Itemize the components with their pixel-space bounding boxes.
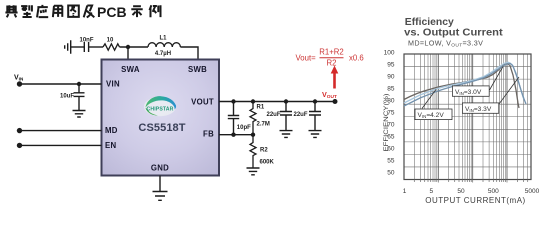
svg-text:VIN=3.3V: VIN=3.3V — [465, 106, 492, 113]
wire C2 branch — [78, 84, 80, 93]
svg-text:50: 50 — [457, 188, 465, 195]
glyph 典 — [5, 5, 17, 17]
svg-text:FB: FB — [203, 130, 214, 139]
svg-text:vs. Output Current: vs. Output Current — [404, 27, 503, 38]
svg-text:50: 50 — [387, 169, 395, 176]
capacitor C1 10nF — [84, 42, 88, 52]
resistor R2 600K — [250, 135, 256, 168]
y axis labels — [384, 50, 395, 177]
wire EN — [20, 144, 102, 146]
svg-text:GND: GND — [151, 164, 169, 173]
capacitor C2 10uF — [74, 93, 85, 97]
wire node to SWA — [127, 47, 129, 59]
fraction bar — [320, 57, 344, 59]
junction VIN/C2 — [77, 82, 81, 86]
curve VIN=4.2V (gray) — [404, 63, 519, 108]
chart gridlines — [404, 54, 531, 180]
wire C5 branch — [314, 102, 316, 112]
glyph 及 — [84, 6, 95, 18]
wire VOUT net — [219, 101, 335, 103]
curve VIN=3.3V (mid blue) — [404, 63, 526, 106]
chart frame — [404, 54, 531, 180]
svg-text:100: 100 — [384, 50, 395, 57]
svg-text:SWB: SWB — [188, 65, 207, 74]
svg-text:R2: R2 — [260, 148, 268, 154]
svg-text:SWA: SWA — [121, 65, 140, 74]
glyph 应 — [37, 5, 48, 18]
svg-text:85: 85 — [387, 85, 395, 92]
inductor L1 — [148, 43, 180, 47]
resistor R3 10ohm — [103, 44, 119, 50]
svg-text:CHIPSTAR: CHIPSTAR — [147, 107, 174, 113]
wire GND pin — [159, 176, 161, 192]
svg-text:4.7µH: 4.7µH — [155, 51, 171, 57]
ground under R2 — [247, 168, 260, 175]
curve VIN=3.0V (light blue) — [404, 62, 525, 103]
svg-text:10: 10 — [107, 38, 114, 44]
ground under C2 — [73, 111, 86, 118]
svg-text:CS5518T: CS5518T — [138, 122, 185, 134]
capacitor C5 22uF — [309, 112, 321, 116]
ground G1 (input filter, rotated left) — [65, 40, 71, 53]
ground under C4 — [280, 131, 293, 138]
junction C5 top — [313, 99, 317, 103]
ground under C5 — [309, 131, 322, 138]
svg-text:2.7M: 2.7M — [257, 122, 270, 128]
x axis minor ticks — [414, 180, 527, 183]
node EN terminal — [17, 143, 22, 148]
svg-text:MD=LOW, VOUT=3.3V: MD=LOW, VOUT=3.3V — [408, 39, 483, 49]
svg-text:1: 1 — [403, 188, 407, 195]
svg-text:VOUT: VOUT — [322, 90, 337, 100]
svg-text:5000: 5000 — [525, 188, 540, 195]
svg-text:R1: R1 — [257, 105, 265, 111]
logo CHIPSTAR — [144, 96, 176, 116]
wire C1 to R3 — [89, 46, 103, 48]
formula Vout — [296, 48, 364, 68]
node junction SWA — [126, 45, 130, 49]
wire FB net — [219, 134, 253, 136]
junction R1 top — [251, 99, 255, 103]
svg-text:OUTPUT CURRENT(mA): OUTPUT CURRENT(mA) — [425, 196, 525, 205]
leader line 4.2V — [422, 90, 436, 109]
svg-text:VOUT: VOUT — [191, 98, 214, 107]
wire R3 to node — [120, 46, 149, 48]
svg-text:Vout=: Vout= — [296, 54, 317, 63]
title 典型应用图及PCB示例 — [5, 4, 160, 20]
svg-text:Efficiency: Efficiency — [405, 17, 454, 28]
svg-text:600K: 600K — [260, 160, 275, 166]
svg-text:22uF: 22uF — [266, 112, 280, 118]
svg-text:L1: L1 — [159, 36, 167, 42]
junction C3 bottom FB — [231, 133, 235, 137]
svg-text:VIN=3.0V: VIN=3.0V — [455, 89, 482, 96]
wire C4 branch — [285, 102, 287, 112]
wire L1 to SWB corner — [180, 47, 198, 59]
wire C4 to ground — [285, 115, 287, 130]
glyph 图 — [68, 6, 79, 17]
svg-text:MD: MD — [105, 126, 118, 135]
capacitor C4 22uF — [280, 112, 292, 116]
svg-text:EFFICIENCY(%): EFFICIENCY(%) — [383, 94, 390, 152]
legend box VIN=3.3V — [462, 103, 498, 113]
wire VIN — [20, 83, 102, 85]
svg-text:x0.6: x0.6 — [349, 54, 364, 63]
legend box VIN=3.0V — [452, 86, 489, 96]
svg-text:95: 95 — [387, 61, 395, 68]
ground under U1 GND — [153, 192, 168, 201]
svg-text:10nF: 10nF — [79, 38, 93, 44]
svg-text:90: 90 — [387, 73, 395, 80]
glyph 型 — [21, 5, 32, 17]
svg-text:5: 5 — [429, 188, 433, 195]
wire C3 branch top — [233, 102, 235, 116]
leader line 3.0V — [490, 67, 504, 91]
legend box VIN=4.2V — [415, 109, 452, 120]
svg-text:EN: EN — [105, 141, 117, 150]
arrow VOUT (red) — [331, 66, 339, 89]
node VOUT terminal — [333, 99, 338, 104]
leader line 3.3V — [499, 77, 519, 104]
node VIN terminal — [17, 81, 22, 86]
junction C4 top — [284, 99, 288, 103]
svg-text:22uF: 22uF — [293, 112, 307, 118]
svg-text:VIN: VIN — [14, 75, 24, 82]
svg-text:VIN=4.2V: VIN=4.2V — [418, 112, 445, 119]
wire C2 to ground — [78, 96, 80, 110]
wire C5 to ground — [314, 115, 316, 130]
IC U1 CS5518T — [102, 60, 220, 176]
x axis labels — [403, 188, 540, 195]
wire G1 to C1 — [71, 46, 84, 48]
svg-text:10pF: 10pF — [237, 125, 251, 131]
node MD terminal — [17, 128, 22, 133]
capacitor C3 10pF — [228, 116, 239, 119]
svg-text:10uF: 10uF — [60, 94, 74, 100]
svg-text:PCB: PCB — [97, 4, 127, 20]
svg-text:55: 55 — [387, 157, 395, 164]
junction R1/R2 FB — [251, 133, 255, 137]
glyph 例 — [150, 5, 161, 17]
svg-text:R2: R2 — [327, 59, 337, 68]
svg-text:VIN: VIN — [106, 80, 120, 89]
resistor R1 2.7M — [250, 102, 256, 135]
svg-text:500: 500 — [488, 188, 499, 195]
glyph 示 — [131, 6, 142, 17]
junction C3 top — [231, 99, 235, 103]
wire C3 branch bottom — [233, 119, 235, 135]
svg-text:R1+R2: R1+R2 — [319, 48, 344, 57]
glyph 用 — [53, 6, 62, 17]
wire MD — [20, 130, 102, 132]
